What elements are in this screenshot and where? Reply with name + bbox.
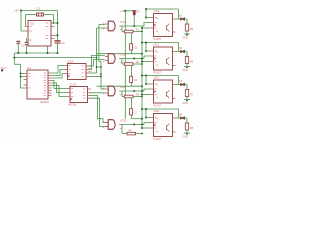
svg-text:OK4: OK4 <box>154 109 160 113</box>
svg-text:OK1: OK1 <box>154 9 160 13</box>
svg-text:GND: GND <box>183 37 188 39</box>
svg-text:IC5: IC5 <box>30 21 35 25</box>
svg-text:PC817: PC817 <box>154 138 162 140</box>
svg-text:R5: R5 <box>190 27 194 31</box>
svg-text:PC817: PC817 <box>154 104 162 107</box>
svg-text:IC2B: IC2B <box>70 82 76 86</box>
svg-text:OK3: OK3 <box>154 75 160 79</box>
svg-text:C6: C6 <box>134 78 138 82</box>
svg-text:C2: C2 <box>28 38 32 42</box>
svg-text:R8: R8 <box>190 126 194 130</box>
svg-text:+9V: +9V <box>14 9 19 13</box>
svg-text:4060N: 4060N <box>40 100 49 104</box>
svg-text:GND: GND <box>183 70 188 72</box>
svg-text:PC817: PC817 <box>154 38 162 41</box>
svg-text:C5: C5 <box>134 45 138 49</box>
svg-text:R4: R4 <box>129 129 133 133</box>
svg-text:Q1: Q1 <box>37 7 41 11</box>
svg-text:C1: C1 <box>21 43 25 47</box>
svg-text:+12: +12 <box>120 9 125 13</box>
svg-text:R2: R2 <box>136 60 140 64</box>
svg-text:C3: C3 <box>61 41 65 45</box>
svg-text:PC817: PC817 <box>154 71 162 74</box>
svg-text:R3: R3 <box>136 93 140 97</box>
svg-text:4013N: 4013N <box>68 103 76 107</box>
svg-text:IC1: IC1 <box>27 66 32 70</box>
svg-text:TAKT: TAKT <box>0 66 7 70</box>
svg-text:R6: R6 <box>190 59 194 63</box>
svg-text:IC3A: IC3A <box>120 20 126 24</box>
svg-text:IC3B: IC3B <box>120 52 126 56</box>
svg-text:IC3C: IC3C <box>120 85 126 89</box>
svg-text:GND: GND <box>183 103 188 105</box>
svg-text:C7: C7 <box>134 110 138 114</box>
svg-text:IC2A: IC2A <box>67 59 73 63</box>
svg-text:R1: R1 <box>136 28 140 32</box>
svg-text:R7: R7 <box>190 92 194 96</box>
svg-text:IC3D: IC3D <box>120 118 126 122</box>
svg-text:GND: GND <box>183 136 188 138</box>
svg-text:OK2: OK2 <box>154 42 160 46</box>
